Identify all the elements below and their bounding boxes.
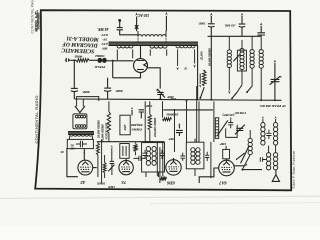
junction dot bleeder top xyxy=(203,70,205,72)
label 1MF mid xyxy=(145,104,152,108)
label 2.5V xyxy=(101,42,109,46)
label 6.3V xyxy=(101,33,108,37)
svg-text:FIELD: FIELD xyxy=(94,65,105,69)
switch contact 2 xyxy=(246,86,252,93)
fuse X xyxy=(135,25,139,29)
capacitor 8MF second xyxy=(104,78,111,99)
output transformer winding xyxy=(70,134,93,136)
wire web vertical b xyxy=(174,110,176,152)
junction dot web b xyxy=(186,100,188,102)
svg-text:H: H xyxy=(184,67,188,71)
IF coil primary lower xyxy=(266,146,270,170)
label IF PEAK 456 KC xyxy=(259,104,287,108)
label FIELD xyxy=(94,65,105,69)
label 1 MF under 75 xyxy=(108,185,115,189)
oscillator trimmer arrow xyxy=(241,145,251,163)
label 44 MF xyxy=(97,27,109,31)
label 6D6 xyxy=(166,181,175,186)
label 02MF in box xyxy=(70,143,76,150)
svg-text:75: 75 xyxy=(121,180,126,185)
heater lead arrow left xyxy=(176,67,179,70)
capacitor 05MF with arrow xyxy=(239,13,246,37)
IF transformer 2 box xyxy=(186,142,204,169)
label 1MF det xyxy=(219,142,226,146)
IF transformer 3 secondary xyxy=(152,147,156,166)
wire resistor lead xyxy=(70,59,76,61)
antenna triangle xyxy=(272,170,279,182)
wire filter cap drop xyxy=(73,60,75,88)
svg-text:400Ω: 400Ω xyxy=(74,54,83,58)
output transformer core xyxy=(68,132,94,135)
transformer T1 primary winding xyxy=(138,31,166,42)
IF coil secondary lower xyxy=(273,145,277,170)
svg-text:110 AC: 110 AC xyxy=(137,13,149,17)
svg-text:.05 MF.: .05 MF. xyxy=(224,23,235,27)
svg-text:6.3V: 6.3V xyxy=(101,33,108,37)
label 10MF under 42 xyxy=(96,182,105,186)
svg-text:1MF.: 1MF. xyxy=(169,97,176,101)
label 500000 ohms xyxy=(131,123,143,131)
label 10 xyxy=(60,150,64,154)
IF coil secondary upper xyxy=(273,123,277,146)
wire 6A7 left xyxy=(199,168,219,183)
svg-text:42: 42 xyxy=(80,180,86,185)
label in volume box xyxy=(124,124,127,131)
coil L2 trimmer arrow xyxy=(233,54,241,61)
wire rectifier plate top xyxy=(140,46,142,59)
wires left of 6D6 xyxy=(157,142,163,183)
wire rectifier bottom xyxy=(113,73,141,78)
detector resistor hatched xyxy=(215,118,218,139)
svg-text:(.05 MF): (.05 MF) xyxy=(222,113,234,117)
svg-text:6D6: 6D6 xyxy=(166,181,175,186)
transformer T1 secondary winding 1 xyxy=(117,46,133,60)
transformer T1 heater winding xyxy=(176,46,195,66)
wire field tap xyxy=(112,61,114,78)
wire voltage divider arrow xyxy=(199,74,201,88)
wire B+ rail xyxy=(208,35,262,37)
tuning capacitor with arrow xyxy=(270,60,282,100)
label .05MF xyxy=(224,23,235,27)
label 25000 ohms vertical xyxy=(200,51,204,61)
label 05MF det xyxy=(222,113,234,117)
IF coil primary upper xyxy=(261,123,265,146)
wire T1 right end drop xyxy=(197,45,199,100)
label 25000 under line xyxy=(166,112,179,116)
svg-text:2.5V: 2.5V xyxy=(101,42,109,46)
transformer T1 core xyxy=(109,42,199,45)
IF transformer 2 secondary xyxy=(196,148,200,165)
detector capacitor xyxy=(228,117,233,128)
wire 6A7 column xyxy=(210,142,212,178)
IF coil secondary arrow xyxy=(275,116,277,122)
wire mid bus xyxy=(97,141,165,143)
switch wire xyxy=(237,85,242,92)
AC plug arrow left xyxy=(135,13,138,16)
transformer T1 secondary winding 2 xyxy=(150,46,167,56)
wire AC line left xyxy=(136,17,138,32)
IF transformer 2 primary xyxy=(191,148,195,165)
wire B+ rail drop xyxy=(210,36,212,99)
svg-text:10: 10 xyxy=(60,150,64,154)
ground bus wire xyxy=(74,99,281,100)
svg-text:8MF.: 8MF. xyxy=(82,90,90,94)
capacitor 8MF first xyxy=(71,88,78,99)
IF lower capacitor xyxy=(260,157,266,162)
resistor small horizontal xyxy=(162,118,171,121)
label H xyxy=(184,67,188,71)
75 input capacitor xyxy=(110,161,115,175)
75 input arrow xyxy=(111,145,113,161)
svg-text:VOICE COIL: VOICE COIL xyxy=(105,122,109,139)
coil L1 xyxy=(227,36,231,90)
output box capacitor xyxy=(76,141,87,147)
switch contact 1 xyxy=(231,92,237,99)
junction dot filter xyxy=(73,59,75,61)
speaker voice coil box xyxy=(73,114,87,129)
speaker cone xyxy=(75,106,85,113)
svg-text:1800Ω: 1800Ω xyxy=(95,54,105,58)
svg-text:MF: MF xyxy=(70,147,76,151)
svg-text:500,000: 500,000 xyxy=(131,123,143,127)
wires IF3 bottom xyxy=(146,172,159,177)
oscillator coil xyxy=(242,130,252,169)
wire transformer drop left xyxy=(70,136,93,139)
padder capacitor with arrow xyxy=(235,125,245,135)
label 75 xyxy=(121,180,126,185)
svg-text:25,000: 25,000 xyxy=(200,51,204,61)
svg-text:25,000Ω: 25,000Ω xyxy=(166,112,179,116)
svg-text:10MF.: 10MF. xyxy=(96,182,105,186)
6A7 grid shield xyxy=(223,146,230,159)
label 5V xyxy=(102,38,107,42)
AC plug arrow right xyxy=(165,12,168,15)
wire web vertical e xyxy=(198,101,200,142)
wire IF2 top xyxy=(194,139,196,176)
label 42 xyxy=(80,180,86,185)
volume control box xyxy=(120,115,130,135)
svg-text:44 MF.: 44 MF. xyxy=(97,27,109,31)
label 456 KC xyxy=(144,140,155,144)
heater lead arrow right xyxy=(193,65,196,68)
capacitor input connector xyxy=(65,58,70,62)
resistor 42 screen xyxy=(103,155,106,178)
wire bleeder bottom xyxy=(200,87,204,98)
label 2MF xyxy=(166,95,174,99)
svg-text:1730 KC: 1730 KC xyxy=(234,111,246,115)
resistor divider 2 xyxy=(148,101,151,142)
resistor 400 ohm xyxy=(76,59,89,62)
75 coupling capacitor xyxy=(133,156,145,161)
label 1MF xyxy=(198,22,206,26)
wire web vertical d xyxy=(196,86,198,142)
capacitor 1MF with arrow xyxy=(208,13,215,37)
label 8 MF second xyxy=(115,89,123,93)
IF3 capacitor left xyxy=(143,150,148,159)
coil L3 xyxy=(250,36,254,86)
svg-text:5V-: 5V- xyxy=(102,38,107,42)
wire web vertical c xyxy=(186,101,188,142)
label 6A7 xyxy=(218,181,226,186)
label 1800 ohm xyxy=(95,54,105,58)
wire divider drop a xyxy=(144,101,146,142)
junction dot web a xyxy=(174,109,176,111)
svg-text:1MF: 1MF xyxy=(219,142,226,146)
wire 42 right xyxy=(93,167,97,169)
svg-text:250,000 OHMS: 250,000 OHMS xyxy=(153,117,157,138)
title SCHEMATIC DIAGRAM OF MODEL A-31 xyxy=(61,35,100,54)
junction dot field tap xyxy=(112,60,114,62)
label 1MF lower xyxy=(168,137,175,141)
6D6 grid capacitor xyxy=(180,153,185,161)
coil L2 xyxy=(240,40,244,85)
rectifier tube 80 xyxy=(134,59,148,73)
svg-text:6A7: 6A7 xyxy=(218,181,226,186)
wire 42 cathode box xyxy=(67,148,78,177)
IF3 capacitor right xyxy=(159,150,164,159)
svg-text:©John F. Rider, Publisher: ©John F. Rider, Publisher xyxy=(292,150,296,189)
wire resistor to field xyxy=(89,59,97,61)
tube 6D6 xyxy=(166,158,181,175)
wire 25000 line xyxy=(163,109,213,111)
label 80V xyxy=(101,47,107,51)
wire 42 column xyxy=(101,139,103,183)
capacitor trimmer third xyxy=(257,23,265,35)
label 8 MF first xyxy=(82,90,90,94)
junction dot oscillator xyxy=(241,169,243,171)
field coil blob xyxy=(97,58,106,63)
svg-text:.1MF: .1MF xyxy=(124,124,127,131)
IF coil primary arrow xyxy=(262,116,264,122)
resistor 42 bias xyxy=(96,142,99,177)
svg-text:1MF.: 1MF. xyxy=(108,185,115,189)
resistor 75 plate load xyxy=(134,142,137,155)
resistor 25000 ohm bleeder xyxy=(202,71,206,86)
speaker wires xyxy=(77,97,99,107)
tube 75 xyxy=(119,159,133,175)
IF transformer 2 capacitor xyxy=(205,152,209,161)
6A7 mixer arrow xyxy=(236,153,245,160)
wire rectifier left xyxy=(107,60,134,62)
resistor divider 1 xyxy=(107,101,110,142)
schematic border frame xyxy=(35,10,291,190)
wire output to 42 grid xyxy=(83,149,85,161)
6D6 cathode zigzag xyxy=(160,177,167,180)
svg-text:8MF.: 8MF. xyxy=(115,89,123,93)
svg-text:SCHEMATIC: SCHEMATIC xyxy=(61,47,94,54)
tube 42 xyxy=(78,160,93,175)
IF transformer 3 primary xyxy=(146,147,150,166)
wire web vertical a xyxy=(162,101,164,117)
svg-text:80V: 80V xyxy=(101,47,107,51)
tube 6A7 xyxy=(219,159,235,176)
detector box xyxy=(226,125,238,138)
75 grid shield box xyxy=(120,144,129,159)
coil L1 arrow xyxy=(228,91,231,94)
output coupling box xyxy=(67,139,93,148)
vertical labels left of web xyxy=(96,120,108,142)
detector arrow xyxy=(218,120,228,135)
junction dots on bus xyxy=(160,98,276,101)
page edge line xyxy=(0,196,320,198)
svg-text:1MF.: 1MF. xyxy=(198,22,206,26)
capacitor 1MF mid with arrow xyxy=(131,107,144,118)
IF padder capacitor xyxy=(266,130,271,139)
6A7 output wire xyxy=(234,163,247,166)
coil L4 xyxy=(259,35,263,100)
coil L2 shield box xyxy=(237,50,246,71)
capacitor 1MF lower with arrow xyxy=(176,123,183,136)
label 1730 KC xyxy=(234,111,246,115)
capacitor line bypass 44MF xyxy=(117,20,138,35)
svg-text:1MF: 1MF xyxy=(168,137,175,141)
label 400 ohm xyxy=(74,54,83,58)
wire detector column xyxy=(213,101,215,142)
svg-text:1MF.: 1MF. xyxy=(145,104,152,108)
capacitor 2MF with arrow xyxy=(156,89,165,100)
junction dot bleeder xyxy=(199,97,201,99)
label 50000 ohms vertical xyxy=(207,48,211,66)
75 tone arrow xyxy=(108,165,114,172)
label 110 AC xyxy=(137,13,149,17)
IF transformer 3 box xyxy=(142,143,165,172)
label 250000 ohms vertical xyxy=(153,117,157,138)
svg-text:IF PEAK 456 KC.: IF PEAK 456 KC. xyxy=(259,104,287,108)
label 1MF top mid xyxy=(169,97,176,101)
wire AC line right xyxy=(165,16,167,31)
svg-text:OHMS: OHMS xyxy=(132,128,142,132)
wire rectifier right xyxy=(148,68,161,89)
wire oscillator return xyxy=(242,169,262,171)
